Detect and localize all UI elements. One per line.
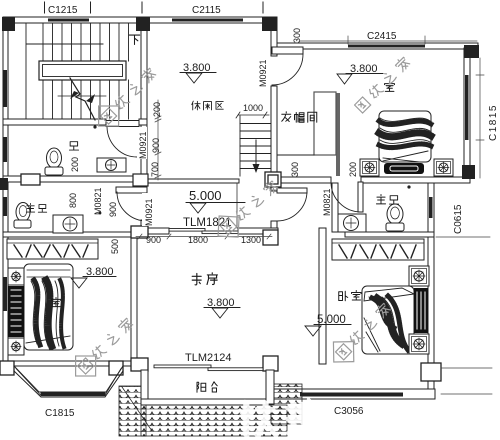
wall balcony right [266,370,273,404]
wall right exterior lower [428,183,434,393]
svg-text:C1215: C1215 [48,5,78,16]
bed top-right [379,111,431,162]
sink bath1 [97,158,126,172]
watermark 4 图纸之家 [66,312,140,386]
toilet bath2 left [14,203,31,229]
balcony tiles right [271,384,302,424]
svg-text:300: 300 [290,162,300,177]
column dark top central [262,17,277,31]
svg-text:1000: 1000 [243,103,263,113]
svg-text:1800: 1800 [188,235,208,245]
wall bedroomBR top [345,232,434,237]
stair break line [70,78,95,120]
room label 卫 bath1 [69,142,78,150]
wall study right [319,228,326,364]
balcony walls redraw [141,370,274,405]
wall balcony left [141,370,148,404]
svg-text:C1815: C1815 [488,104,499,141]
dimension ticks top [45,2,264,13]
svg-text:300: 300 [292,28,302,43]
toilet bath1 [45,148,63,175]
svg-text:M0821: M0821 [93,187,103,215]
nightstand TR right [434,159,453,176]
extension lines right [436,237,492,394]
label 室 top-right [385,82,395,92]
room label 衣帽间 [282,112,317,123]
wall central vertical [271,23,277,56]
window C3056 [300,393,403,397]
nightstand BL top [8,268,24,285]
window left stair [4,70,8,107]
balcony tiles left [119,384,302,436]
sliding door TLM2124 [154,365,263,371]
door stop dots [93,125,96,128]
column white central junction [265,172,281,187]
room label 阳台 [197,382,217,393]
sink bath2 right [338,214,366,232]
column dark top stair-right [136,17,150,31]
dim line C2415 [300,36,492,394]
room label 卧室 [339,291,361,301]
elevation 3.800 bedroomBL [71,266,116,288]
tile diagonal [122,387,152,431]
watermark 3 图纸之家 [354,56,411,113]
label 室 bed BL [51,297,60,306]
svg-text:200: 200 [70,157,80,172]
column white bedroomBL bottom-left [0,361,14,375]
dim line right C1815 [476,58,484,178]
corridor edge line [236,183,238,228]
watermark 1 图纸之家 [89,62,163,136]
bay window bottom-left [14,366,123,397]
svg-text:C2115: C2115 [192,5,221,16]
column dark top-right [464,45,479,58]
wall study left [131,234,137,358]
column white mid junction [133,174,148,186]
bed bottom-left [24,264,73,350]
column white study bottom-left [131,358,148,371]
door M0921 bath1 [106,121,139,158]
label M0921 hall [142,193,154,226]
elevation 3.800 leisure [180,62,216,83]
svg-text:M0921: M0921 [138,131,148,159]
balcony tiles bottom [141,405,287,436]
wall right exterior upper [464,48,470,178]
sliding door TLM1821 [169,229,238,234]
svg-text:C0615: C0615 [453,204,464,234]
wall stair-bath right vertical [141,23,147,119]
window C2415 [348,45,425,48]
elevation 5.000 corridor [186,188,245,213]
door M0921 leisure-cloakroom [272,47,303,85]
svg-text:C1815: C1815 [45,408,75,419]
svg-text:1300: 1300 [241,235,261,245]
door M0821 bath2 left [116,187,147,221]
bed TR foot bench [384,163,424,174]
bed bottom-right [362,286,414,354]
column white bedroomBR right [421,363,441,381]
svg-text:200: 200 [152,102,162,117]
bed BR headboard [414,288,428,333]
wall study bottom [131,364,148,370]
column dark top-left [2,17,15,31]
svg-text:500: 500 [110,239,120,254]
svg-text:M0821: M0821 [322,188,332,216]
staircase top-left [26,23,129,120]
nightstand BL bottom [8,338,24,355]
wall left exterior [3,17,8,366]
dim chain leisure left [155,100,161,180]
window C2115 [172,19,243,22]
wall bath divider [3,176,141,182]
window C1215 [48,19,89,22]
wall top-right exterior [271,43,478,49]
svg-text:200: 200 [348,162,358,177]
nightstand TR left [360,159,379,176]
window left bath2 [4,197,8,216]
column white bath divider [0,172,441,381]
stair flight mid (to 5.000) [240,116,271,176]
watermark white 快搜 [240,399,322,437]
room label 主卫 bath2L [26,203,46,212]
svg-text:M0921: M0921 [144,198,154,226]
watermark 2 图纸之家 [209,174,285,246]
elevation 3.800 top-right [337,63,383,84]
bed BL headboard [8,286,24,337]
closet cloakroom [277,92,336,155]
wall bedroomBL bottom [3,361,131,366]
dim line corridor bottom [136,234,272,239]
room label 书房 [192,273,217,285]
stair landing [39,61,126,80]
nightstand BR bottom [409,334,429,354]
svg-text:M0921: M0921 [258,59,268,87]
svg-text:800: 800 [68,193,78,208]
window left bedroomBL [4,277,8,311]
wall bedroomBR bottom [274,389,435,399]
sink bath2 left [53,215,83,233]
svg-text:C3056: C3056 [334,406,364,417]
wall corridor bottom [131,228,169,234]
window C1815 right [465,75,469,140]
svg-text:5.000: 5.000 [189,188,222,203]
svg-text:900: 900 [151,138,161,153]
column dark left bath2 [0,178,8,190]
column white bedroomBL bottom-right [109,361,123,375]
dim 1000 [236,103,269,118]
label M0921 bath1 [137,127,148,159]
svg-text:C2415: C2415 [367,31,397,42]
svg-text:900: 900 [108,202,118,217]
column white corridor left [131,226,148,238]
window left bath1 [4,137,8,162]
wall bedroomBL top [3,232,131,237]
column white study bottom-right [263,356,278,371]
wall stair bottom [3,119,106,125]
wardrobe bedroomBL [7,239,98,259]
toilet bath2 right [386,204,404,231]
svg-text:900: 900 [146,235,161,245]
wardrobe bedroomBR [332,239,424,260]
elevation 5.000 bedroomBR [305,314,351,336]
column dark right mid [462,165,475,179]
svg-text:700: 700 [150,162,160,177]
wall hall-right divider [281,177,331,183]
door M0921 hallway [277,188,307,221]
svg-text:TLM2124: TLM2124 [185,352,231,364]
elevation 3.800 study [204,297,240,318]
wall balcony bottom [141,399,273,405]
column white corridor right [263,230,278,245]
watermark 5 图纸之家 [324,297,398,372]
nightstand BR top [409,266,429,286]
room label 主卫 bath2R [376,194,398,204]
wall leisure-corridor divider [148,179,239,183]
wall cloakroom right [336,93,340,176]
window C0615 [429,197,433,218]
wall bath2R left [332,183,338,232]
door M0821 bath2 right [331,182,363,212]
room label 休闲区 [192,101,223,110]
label 下 stairs [129,35,139,44]
wall top-left exterior [3,17,277,23]
